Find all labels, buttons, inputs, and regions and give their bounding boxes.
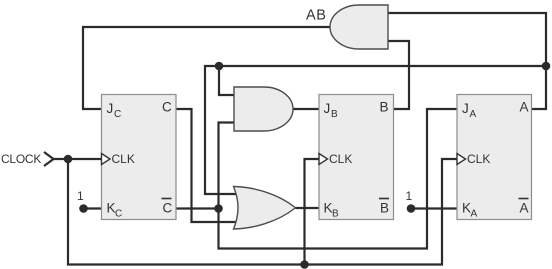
wire C-bar output — [176, 207, 219, 209]
wire A output up right side to AB gate top input — [388, 13, 546, 109]
wire B output to AB gate bottom input — [388, 41, 409, 109]
svg-text:CLOCK: CLOCK — [1, 152, 41, 166]
pin label J_C — [107, 101, 122, 120]
pin label K_A — [462, 201, 478, 220]
wire CLOCK to CLK of FF C — [54, 158, 102, 160]
pin label B output — [380, 100, 389, 115]
pin label C output — [162, 100, 172, 115]
junction node C-bar — [214, 204, 223, 213]
pin label CLK of FF B — [329, 152, 352, 166]
junction clock node — [64, 155, 73, 164]
svg-text:C: C — [162, 100, 172, 115]
pin label K_C — [107, 201, 123, 220]
clock edge triangle FF A — [457, 154, 466, 165]
pin label J_B — [324, 101, 339, 120]
label CLOCK — [1, 152, 41, 166]
svg-text:C: C — [163, 201, 173, 216]
pin label CLK of FF C — [112, 152, 135, 166]
svg-text:CLK: CLK — [112, 152, 135, 166]
svg-text:A: A — [520, 100, 529, 115]
pin label A-bar output — [519, 199, 529, 216]
junction clock bottom node — [300, 260, 309, 269]
wire A feedback line to OR gate top input — [205, 66, 546, 194]
clock edge triangle FF B — [319, 154, 328, 165]
flip-flop B body — [319, 95, 394, 220]
OR gate U3 — [234, 187, 296, 230]
wire K_A constant 1 stub — [411, 207, 457, 209]
svg-text:CLK: CLK — [329, 152, 352, 166]
flip-flop A body — [457, 95, 532, 220]
junction K_C constant node — [79, 204, 88, 213]
junction K_A constant node — [407, 204, 416, 213]
svg-text:1: 1 — [77, 189, 84, 203]
svg-text:C: C — [114, 109, 121, 120]
clock edge triangle FF C — [102, 154, 111, 165]
pin label J_A — [462, 101, 477, 120]
junction node A right side — [542, 62, 551, 71]
wire K_C constant 1 stub — [84, 207, 102, 209]
wire AB gate output to J_C — [83, 27, 330, 109]
wire C-bar to AND gate bottom input and J_A — [219, 109, 458, 249]
svg-text:J: J — [462, 101, 469, 116]
wire clock branch to CLK of FF B — [305, 159, 320, 265]
pin label B-bar output — [379, 199, 389, 216]
svg-text:AB: AB — [306, 8, 327, 24]
label AB — [306, 8, 327, 24]
wire AND gate output to J_B — [293, 108, 319, 110]
svg-text:B: B — [380, 100, 389, 115]
AND gate U2 — [234, 87, 293, 131]
svg-text:B: B — [331, 109, 338, 120]
wire OR gate output to K_B — [296, 207, 320, 209]
svg-text:1: 1 — [406, 189, 413, 203]
pin label CLK of FF A — [467, 152, 490, 166]
pin label C-bar output — [162, 199, 173, 216]
svg-text:J: J — [107, 101, 114, 116]
svg-text:B: B — [380, 201, 389, 216]
wire C output to OR gate bottom input — [176, 109, 241, 222]
svg-text:J: J — [324, 101, 331, 116]
svg-text:A: A — [471, 209, 478, 220]
wire clock distribution bottom to CLK of FF A — [68, 159, 457, 265]
label 1 at K_A — [406, 189, 413, 203]
label 1 at K_C — [77, 189, 84, 203]
svg-text:B: B — [332, 209, 339, 220]
svg-text:A: A — [470, 109, 477, 120]
flip-flop C body — [102, 95, 177, 220]
wire A branch to AND gate top input — [219, 66, 234, 95]
CLOCK input chevron — [44, 152, 54, 166]
svg-text:CLK: CLK — [467, 152, 490, 166]
svg-text:A: A — [520, 201, 529, 216]
pin label A output — [520, 100, 529, 115]
AND gate AB (mirrored, inputs on right) — [330, 5, 388, 49]
svg-text:C: C — [115, 209, 122, 220]
junction node A line to AND gate — [215, 62, 224, 71]
pin label K_B — [324, 201, 340, 220]
